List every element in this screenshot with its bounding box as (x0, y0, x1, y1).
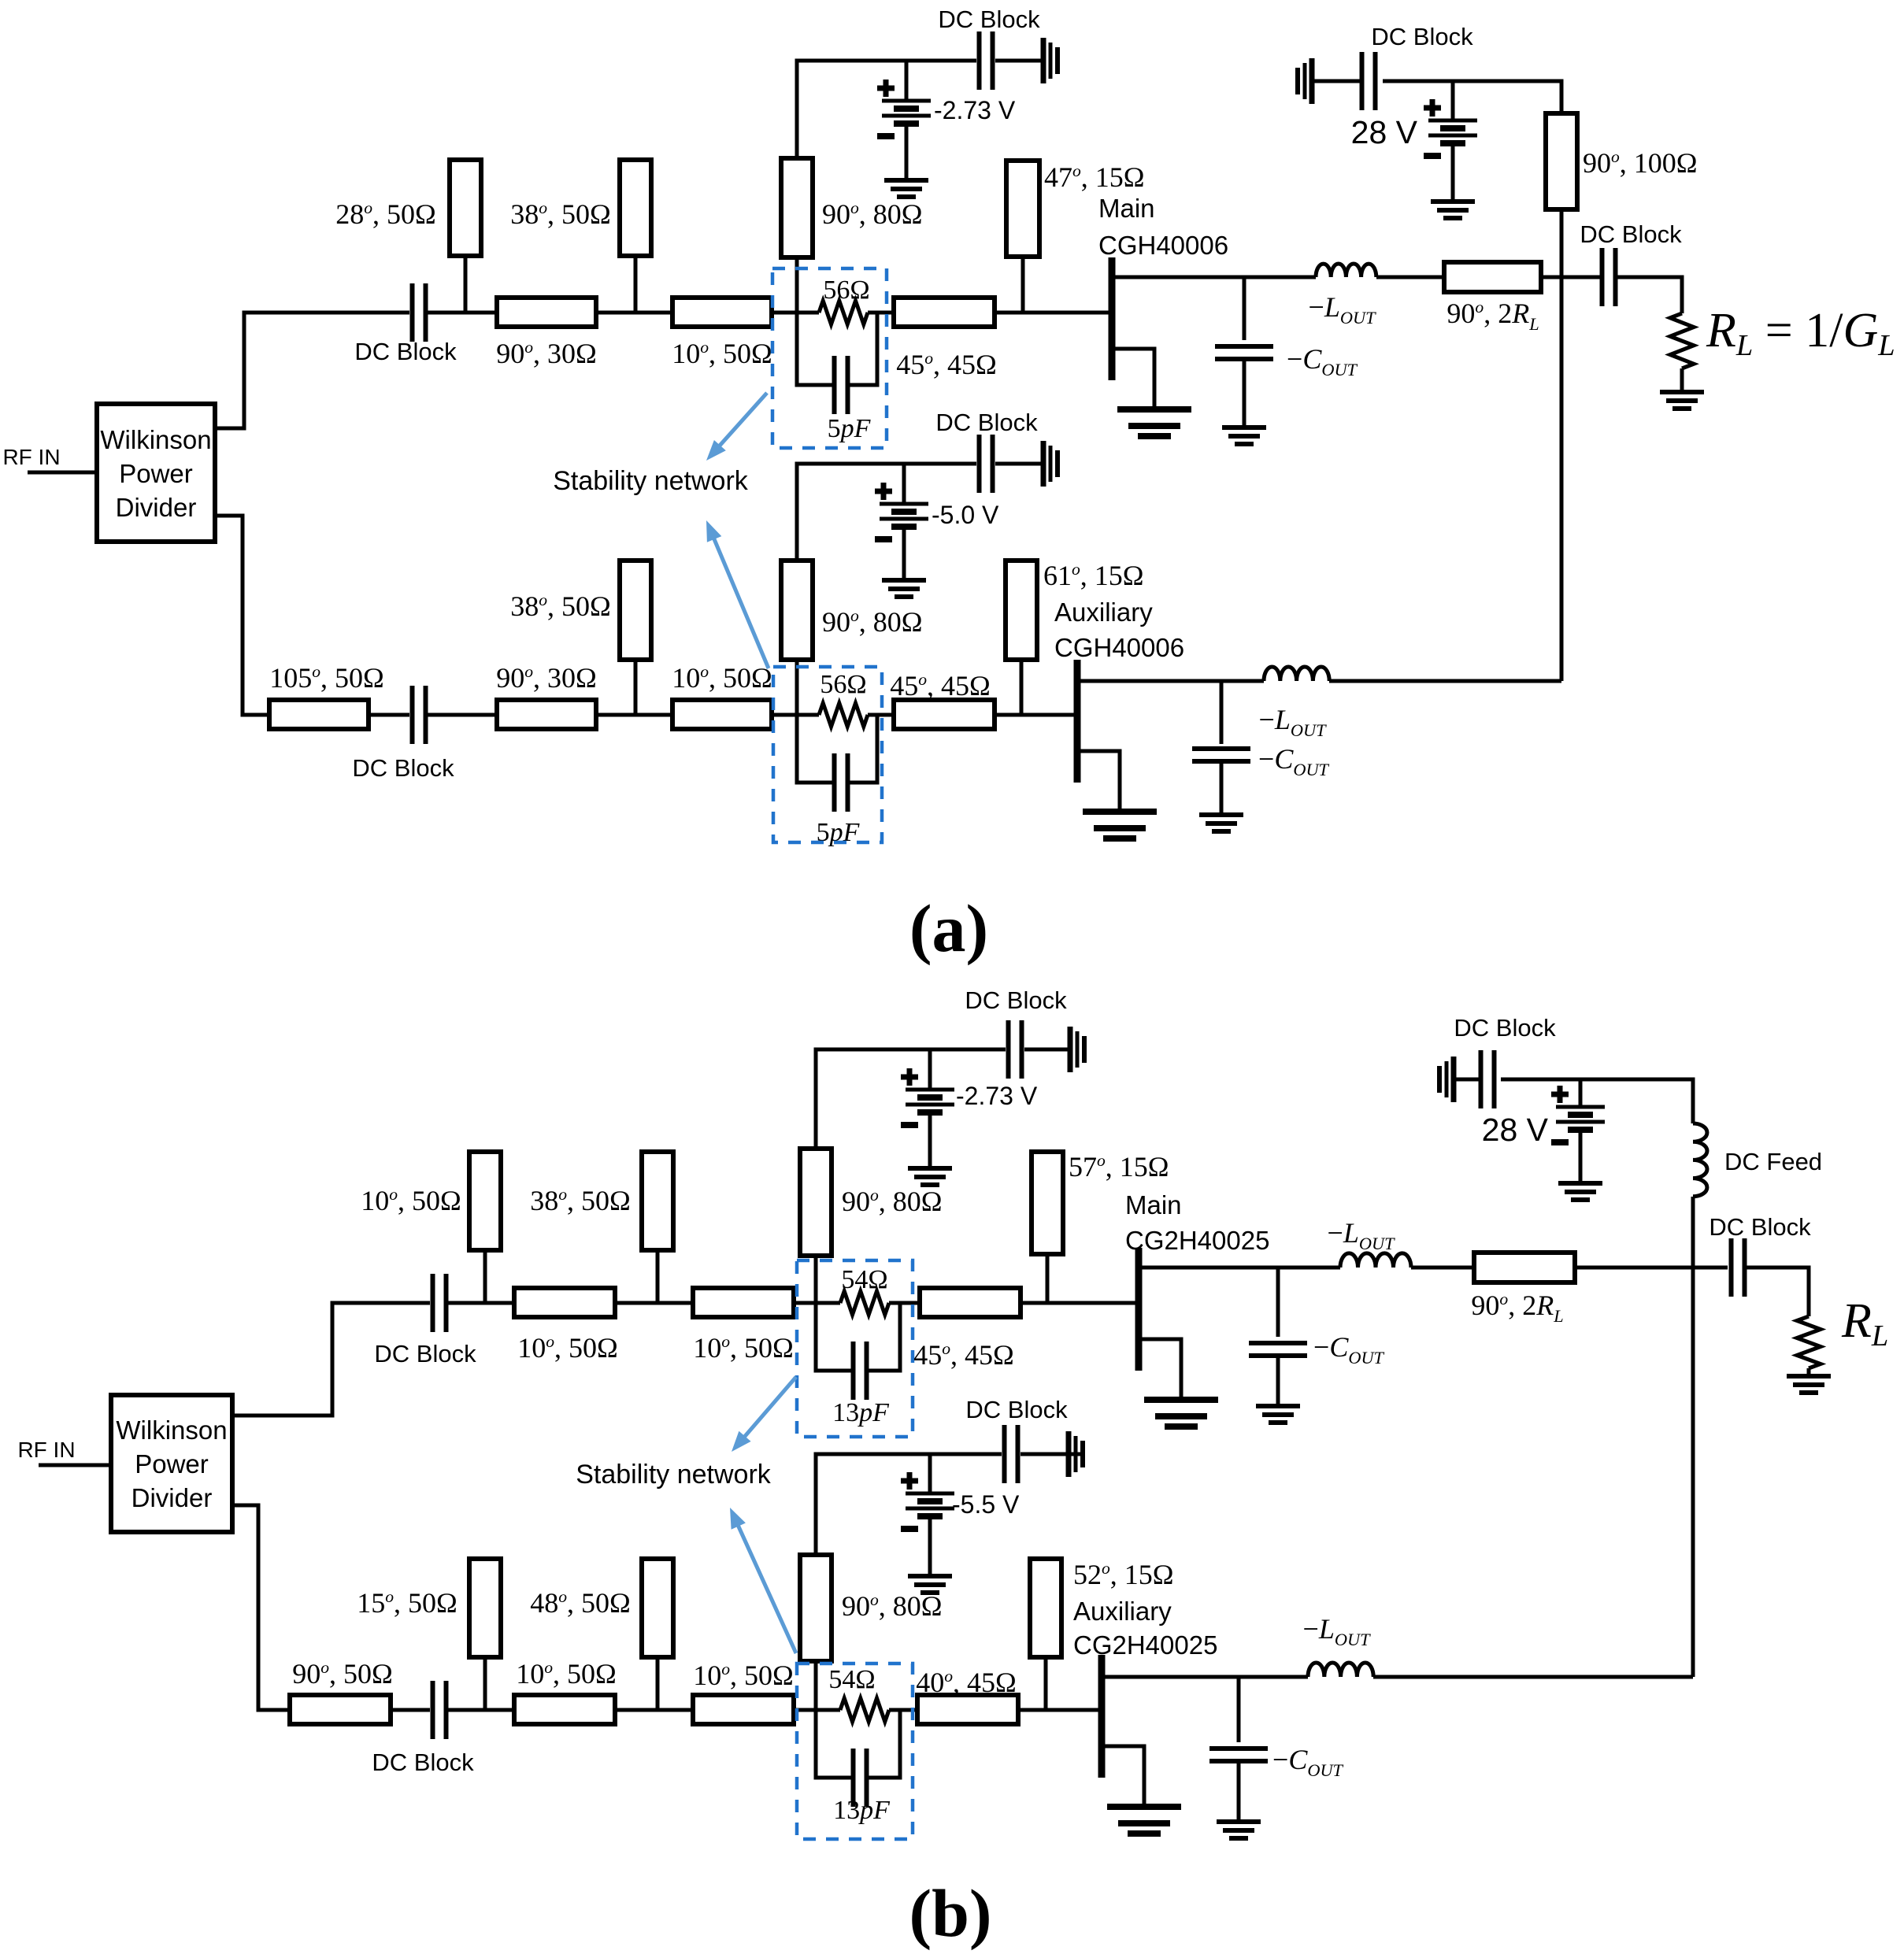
wire cap to rfgnd 28V (b) (1454, 1078, 1480, 1082)
ground aux FET source (a) (1083, 812, 1157, 838)
capacitor 13pF main (b) (854, 1342, 867, 1400)
capacitor DC Block aux bias (b) (1005, 1425, 1018, 1483)
wire bias feed main (b) (816, 1049, 1006, 1149)
TL 105deg 50ohm aux (a) (269, 700, 369, 729)
svg-text:61o, 15Ω: 61o, 15Ω (1043, 560, 1144, 591)
RF ground aux bias (b) (1069, 1431, 1083, 1477)
wire divider top output (a) (215, 313, 409, 428)
wire Cout junction main (b) (1276, 1268, 1280, 1337)
resistor 54ohm main (b) (840, 1291, 889, 1315)
open stub 47deg 15ohm (a) (1006, 161, 1039, 257)
wire stub61 lead (a) (1020, 660, 1024, 715)
svg-text:90o, 80Ω: 90o, 80Ω (822, 198, 923, 230)
open stub 10deg 50ohm (b) (469, 1152, 501, 1250)
transistor Auxiliary CGH40006 (a) (1074, 660, 1081, 783)
wire TL1 to TL2 main (b) (615, 1301, 693, 1305)
TL 10deg 50ohm first aux (b) (514, 1695, 615, 1724)
svg-text:56Ω: 56Ω (823, 276, 869, 305)
wire cap to load (b) (1745, 1268, 1809, 1316)
wire Lout to junction aux (b) (1373, 1675, 1693, 1679)
TL 90deg 2RL (b) (1474, 1253, 1575, 1282)
shunt stub 90deg 80ohm main (a) (781, 158, 813, 257)
svg-text:90o, 30Ω: 90o, 30Ω (496, 338, 597, 369)
svg-text:Wilkinson: Wilkinson (116, 1416, 227, 1445)
transistor Main CG2H40025 (b) (1135, 1248, 1143, 1371)
wire TL2RL to output node (b) (1575, 1266, 1728, 1270)
open stub 57deg 15ohm (b) (1032, 1152, 1063, 1254)
wire bias feed aux (a) (797, 464, 976, 561)
svg-text:RF IN: RF IN (2, 445, 60, 469)
svg-text:90o, 100Ω: 90o, 100Ω (1583, 147, 1698, 179)
transistor Auxiliary CG2H40025 (b) source lead (1102, 1746, 1144, 1807)
ground RL (b) (1787, 1376, 1831, 1393)
svg-text:-2.73 V: -2.73 V (956, 1082, 1038, 1110)
ground -Cout main (b) (1256, 1406, 1300, 1423)
svg-text:10o, 50Ω: 10o, 50Ω (517, 1332, 618, 1364)
wire cap to TL1 main (b) (446, 1301, 514, 1305)
wire TL1 to TL2 aux (b) (615, 1708, 693, 1712)
svg-text:56Ω: 56Ω (820, 670, 866, 699)
ground main FET source (b) (1144, 1400, 1218, 1427)
transistor Main CGH40006 (a) (1109, 257, 1116, 380)
wire Cout to ground aux (b) (1237, 1761, 1241, 1822)
wire stability cap right main (b) (867, 1303, 900, 1371)
svg-text:10o, 50Ω: 10o, 50Ω (693, 1660, 794, 1691)
svg-text:10o, 50Ω: 10o, 50Ω (672, 662, 772, 694)
wire Cout junction aux (b) (1237, 1677, 1241, 1742)
open stub 28deg 50ohm (a) (450, 160, 481, 256)
inductor -Lout aux (a) (1264, 667, 1329, 681)
svg-text:DC Block: DC Block (1709, 1213, 1811, 1241)
svg-text:38o, 50Ω: 38o, 50Ω (530, 1185, 631, 1216)
shunt stub 90deg 100ohm (a) (1546, 113, 1577, 209)
wire stability cap left main (b) (816, 1303, 853, 1371)
wire cap to TL10 aux (b) (446, 1708, 514, 1712)
svg-text:Auxiliary: Auxiliary (1054, 598, 1153, 627)
svg-text:DC Block: DC Block (965, 1396, 1068, 1423)
wire resistor to TL40 aux (b) (889, 1708, 917, 1712)
svg-text:105o, 50Ω: 105o, 50Ω (269, 662, 384, 694)
svg-text:DC Block: DC Block (938, 6, 1040, 33)
svg-text:Divider: Divider (132, 1483, 213, 1512)
transistor Main CG2H40025 (b) source lead (1139, 1339, 1181, 1400)
resistor 54ohm aux (b) (840, 1698, 889, 1722)
wire Lout to TL2RL (a) (1376, 276, 1444, 279)
ground -Cout aux (a) (1199, 815, 1243, 831)
resistor RL load (b) (1797, 1316, 1821, 1368)
TL 45deg 45ohm aux (a) (894, 700, 995, 729)
wire stub1 lead main (b) (483, 1250, 487, 1303)
wire TL45 to gate main (b) (1021, 1301, 1135, 1305)
wire battery to ground (b aux) (928, 1516, 932, 1576)
wire RL to ground (b) (1807, 1368, 1811, 1376)
wire resistor to TL45 main (a) (868, 311, 894, 315)
wire stub2 lead main (b) (656, 1250, 660, 1303)
svg-text:45o, 45Ω: 45o, 45Ω (896, 349, 997, 380)
svg-text:DC Block: DC Block (1371, 23, 1473, 50)
wire 28V battery to ground (a) (1451, 143, 1455, 202)
svg-text:DC Block: DC Block (1454, 1014, 1556, 1042)
ground RL (a) (1660, 392, 1704, 409)
svg-text:Stability network: Stability network (553, 466, 749, 496)
capacitor -Cout main (a) (1215, 346, 1273, 359)
svg-text:52o, 15Ω: 52o, 15Ω (1073, 1559, 1174, 1590)
capacitor DC Block aux input (b) (433, 1681, 446, 1739)
inductor DC Feed (b) (1693, 1123, 1707, 1197)
TL 10deg 50ohm first main (b) (514, 1288, 615, 1317)
wire stub15 lead aux (b) (483, 1657, 487, 1710)
ground battery main (a) (884, 180, 928, 197)
ground 28V battery (a) (1431, 202, 1475, 218)
open stub 38deg 50ohm main (a) (620, 160, 651, 256)
wire stability cap right main (a) (848, 313, 877, 385)
wire cap to RF ground aux bias (a) (995, 462, 1043, 466)
wire 28V battery junction (a) (1451, 81, 1455, 120)
svg-text:Divider: Divider (116, 493, 197, 522)
wire stub to node aux (b) (814, 1661, 818, 1710)
svg-text:45o, 45Ω: 45o, 45Ω (913, 1339, 1014, 1371)
wire TL105 to cap aux (a) (369, 713, 409, 717)
battery 28V (b) (1551, 1086, 1605, 1142)
shunt stub 90deg 80ohm aux (b) (800, 1555, 832, 1661)
wire resistor to TL45 aux (a) (868, 713, 894, 717)
arrow to aux stability box (a) (706, 520, 769, 668)
svg-text:90o, 2RL: 90o, 2RL (1471, 1290, 1563, 1326)
arrow to main stability box (b) (732, 1377, 796, 1452)
resistor 56ohm main (a) (819, 301, 868, 324)
wire cap to load (a) (1616, 277, 1682, 313)
transistor Auxiliary CG2H40025 (b) (1098, 1655, 1106, 1778)
wire divider bottom output (a) (215, 516, 269, 715)
wire TL2 to stability node main (a) (772, 311, 819, 315)
svg-text:DC Feed: DC Feed (1724, 1148, 1822, 1175)
wire cap to RF ground main bias (a) (995, 59, 1043, 63)
inductor -Lout aux (b) (1308, 1663, 1373, 1677)
ground -Cout aux (b) (1217, 1822, 1261, 1838)
TL 45deg 45ohm main (a) (894, 298, 995, 327)
wire stub57 lead (b) (1046, 1254, 1050, 1303)
capacitor -Cout aux (a) (1192, 749, 1250, 761)
svg-text:DC Block: DC Block (372, 1749, 474, 1776)
capacitor DC Block main bias (b) (1009, 1020, 1022, 1079)
wire main drain line (a) (1112, 276, 1316, 279)
RF ground main bias (b) (1070, 1027, 1084, 1072)
svg-text:DC Block: DC Block (935, 409, 1038, 436)
ground aux FET source (b) (1107, 1807, 1181, 1834)
wire battery junction (a main) (905, 61, 909, 101)
stability network dashed box aux (b) (797, 1663, 913, 1839)
capacitor 5pF aux (a) (835, 753, 848, 812)
battery -5.0V (a) (875, 483, 928, 539)
wire main drain line (b) (1139, 1266, 1340, 1270)
svg-text:28 V: 28 V (1351, 114, 1418, 150)
svg-text:40o, 45Ω: 40o, 45Ω (916, 1667, 1017, 1698)
wire bias feed main (a) (797, 61, 976, 158)
wire TL45 to gate aux (a) (995, 713, 1074, 717)
wire aux to main output junction (b) (1691, 1268, 1695, 1677)
capacitor DC Block output (a) (1602, 248, 1616, 306)
TL 10deg 50ohm aux (a) (672, 700, 772, 729)
svg-text:Wilkinson: Wilkinson (100, 425, 211, 454)
svg-text:48o, 50Ω: 48o, 50Ω (530, 1587, 631, 1619)
svg-text:RF IN: RF IN (17, 1438, 75, 1462)
ground main FET source (a) (1117, 409, 1191, 436)
svg-text:45o, 45Ω: 45o, 45Ω (890, 670, 991, 701)
wire Lout to TL2RL (b) (1411, 1266, 1474, 1270)
wire Cout junction main (a) (1243, 277, 1246, 340)
wire stability cap left aux (b) (816, 1710, 853, 1778)
wire RL to ground (a) (1680, 368, 1684, 392)
svg-text:47o, 15Ω: 47o, 15Ω (1044, 161, 1145, 193)
wire TL10 to node aux (a) (772, 713, 819, 717)
svg-text:5pF: 5pF (828, 414, 872, 443)
wire resistor to TL45 main (b) (889, 1301, 920, 1305)
wire stub1 lead main (a) (464, 256, 468, 313)
TL 90deg 50ohm aux (b) (290, 1695, 391, 1724)
wire stub to node main (b) (814, 1256, 818, 1303)
capacitor 5pF main (a) (835, 356, 848, 414)
wire stub100 to bias (a) (1383, 81, 1561, 113)
wire battery junction (b aux) (928, 1454, 932, 1493)
wire TL90 to cap aux (b) (391, 1708, 430, 1712)
wire Cout to ground main (b) (1276, 1356, 1280, 1406)
capacitor -Cout aux (b) (1209, 1749, 1268, 1761)
svg-text:13pF: 13pF (833, 1796, 891, 1825)
wire stability cap left main (a) (797, 313, 834, 385)
wire stub100 to node (a) (1560, 209, 1564, 277)
wire stability cap right aux (a) (848, 715, 877, 783)
wire stub52 lead (b) (1044, 1657, 1048, 1710)
svg-text:10o, 50Ω: 10o, 50Ω (693, 1332, 794, 1364)
svg-text:DC Block: DC Block (1580, 220, 1682, 248)
capacitor DC Block main bias (a) (980, 31, 993, 90)
svg-text:90o, 30Ω: 90o, 30Ω (496, 662, 597, 694)
wire 28V battery to ground (b) (1579, 1130, 1583, 1183)
svg-text:-2.73 V: -2.73 V (934, 96, 1016, 124)
wire aux drain line (b) (1102, 1675, 1308, 1679)
capacitor DC Block aux bias (a) (980, 435, 993, 493)
svg-text:38o, 50Ω: 38o, 50Ω (510, 590, 611, 622)
open stub 52deg 15ohm (b) (1030, 1559, 1061, 1657)
wire stability cap left aux (a) (797, 715, 834, 783)
TL 10deg 50ohm second main (b) (693, 1288, 794, 1317)
capacitor DC Block aux input (a) (413, 686, 426, 744)
arrow to aux stability box (b) (730, 1508, 796, 1653)
wire aux drain line (a) (1077, 679, 1264, 683)
svg-text:RL = 1/GL: RL = 1/GL (1706, 304, 1895, 362)
svg-text:13pF: 13pF (832, 1398, 890, 1427)
wire bias feed 28V (b) (1501, 1079, 1693, 1123)
wire TL40 to gate aux (b) (1018, 1708, 1098, 1712)
ground 28V battery (b) (1558, 1183, 1602, 1200)
wire battery to ground (b main) (928, 1112, 932, 1168)
svg-text:DC Block: DC Block (352, 754, 454, 782)
resistor RL load (a) (1670, 313, 1694, 368)
svg-text:CGH40006: CGH40006 (1054, 633, 1184, 662)
svg-text:10o, 50Ω: 10o, 50Ω (361, 1185, 461, 1216)
RF ground 28V (b) (1439, 1057, 1454, 1102)
wire cap to TL90 aux (a) (426, 713, 497, 717)
svg-text:54Ω: 54Ω (828, 1665, 875, 1694)
svg-text:10o, 50Ω: 10o, 50Ω (672, 338, 772, 369)
capacitor DC Block main input (b) (433, 1274, 446, 1332)
capacitor DC Block main input (a) (413, 283, 426, 342)
svg-text:CG2H40025: CG2H40025 (1125, 1226, 1269, 1255)
svg-text:Main: Main (1098, 194, 1155, 223)
wire cap to TL1 main (a) (426, 311, 497, 315)
wire battery junction (a aux) (902, 464, 906, 504)
TL 40deg 45ohm aux (b) (917, 1695, 1018, 1724)
wire TL2 to node main (b) (794, 1301, 840, 1305)
svg-text:(a): (a) (909, 890, 988, 966)
capacitor 13pF aux (b) (854, 1749, 867, 1807)
battery 28V (a) (1424, 99, 1477, 156)
wire stability cap right aux (b) (867, 1710, 900, 1778)
ground battery main (b) (908, 1168, 952, 1185)
svg-text:90o, 2RL: 90o, 2RL (1447, 298, 1539, 334)
svg-text:DC Block: DC Block (965, 986, 1067, 1014)
shunt stub 90deg 80ohm main (b) (800, 1149, 832, 1256)
wire stub47 lead (a) (1021, 257, 1025, 313)
svg-text:DC Block: DC Block (354, 338, 457, 365)
svg-text:(b): (b) (909, 1875, 991, 1951)
TL 45deg 45ohm main (b) (920, 1288, 1021, 1317)
svg-text:Main: Main (1125, 1190, 1182, 1219)
Wilkinson power divider box (b) (111, 1395, 232, 1532)
svg-text:54Ω: 54Ω (841, 1265, 887, 1294)
transistor Auxiliary CGH40006 (a) source lead (1077, 751, 1120, 812)
svg-text:15o, 50Ω: 15o, 50Ω (357, 1587, 457, 1619)
stability network dashed box main (a) (772, 268, 887, 448)
TL 90deg 30ohm main (a) (497, 298, 596, 327)
wire cap to RF ground main bias (b) (1024, 1048, 1070, 1052)
wire TL2 to node aux (b) (794, 1708, 840, 1712)
open stub 61deg 15ohm (a) (1006, 561, 1037, 660)
svg-text:38o, 50Ω: 38o, 50Ω (510, 198, 611, 230)
TL 10deg 50ohm second aux (b) (693, 1695, 794, 1724)
Wilkinson power divider box (a) (97, 404, 215, 542)
wire 28V battery junction (b) (1579, 1079, 1583, 1107)
arrow to main stability box (a) (706, 393, 767, 461)
svg-text:Auxiliary: Auxiliary (1073, 1597, 1172, 1626)
svg-text:DC Block: DC Block (374, 1340, 476, 1367)
wire Cout junction aux (a) (1220, 681, 1224, 744)
wire cap to rfgnd 28V (a) (1312, 80, 1361, 83)
svg-text:28 V: 28 V (1482, 1112, 1549, 1148)
TL 10deg 50ohm main (a) (672, 298, 772, 327)
wire Cout to ground aux (a) (1220, 761, 1224, 815)
wire battery to ground (a main) (905, 124, 909, 180)
svg-text:-5.5 V: -5.5 V (952, 1490, 1020, 1519)
resistor 56ohm aux (a) (819, 703, 868, 727)
capacitor DC Block output (b) (1732, 1238, 1745, 1297)
svg-text:CG2H40025: CG2H40025 (1073, 1630, 1217, 1660)
capacitor DC Block 28V (b) (1481, 1050, 1495, 1108)
svg-text:Stability network: Stability network (576, 1460, 772, 1490)
ground battery aux (a) (882, 580, 926, 597)
TL 90deg 30ohm aux (a) (497, 700, 596, 729)
ground -Cout main (a) (1222, 427, 1266, 444)
wire aux to main output junction (a) (1560, 277, 1564, 681)
svg-text:90o, 80Ω: 90o, 80Ω (842, 1186, 943, 1217)
wire cap to RF ground aux bias (b) (1021, 1453, 1083, 1456)
RF ground main bias (a) (1043, 38, 1058, 83)
wire divider bottom output (b) (232, 1505, 290, 1710)
wire stub to node aux (a) (795, 660, 799, 715)
svg-text:Power: Power (119, 459, 193, 488)
inductor -Lout main (b) (1340, 1253, 1411, 1268)
svg-text:57o, 15Ω: 57o, 15Ω (1069, 1151, 1169, 1182)
RF ground aux bias (a) (1043, 441, 1058, 487)
wire bias feed aux (b) (816, 1454, 1002, 1555)
wire Cout to ground main (a) (1243, 359, 1246, 427)
RF ground 28V (a) (1298, 58, 1312, 104)
wire RF input lead (b) (39, 1464, 111, 1467)
battery -5.5V (b) (901, 1472, 954, 1529)
ground battery aux (b) (908, 1576, 952, 1593)
wire stub to node main (a) (795, 257, 799, 313)
wire divider top output (b) (232, 1303, 430, 1416)
wire battery junction (b main) (928, 1049, 932, 1090)
open stub 38deg 50ohm aux (a) (620, 561, 651, 660)
shunt stub 90deg 80ohm aux (a) (781, 561, 813, 660)
svg-text:10o, 50Ω: 10o, 50Ω (516, 1658, 617, 1689)
capacitor -Cout main (b) (1249, 1343, 1307, 1356)
wire stub2 lead main (a) (634, 256, 638, 313)
capacitor DC Block 28V (a) (1362, 52, 1376, 110)
open stub 15deg 50ohm aux (b) (469, 1559, 501, 1657)
wire stub48 lead aux (b) (656, 1657, 660, 1710)
open stub 48deg 50ohm aux (b) (642, 1559, 673, 1657)
battery -2.73V (a) (877, 80, 931, 136)
wire TL2RL to output node (a) (1541, 276, 1602, 279)
svg-text:Power: Power (135, 1449, 209, 1478)
wire TL1 to TL2 main (a) (596, 311, 672, 315)
svg-text:90o, 50Ω: 90o, 50Ω (292, 1658, 393, 1689)
wire battery to ground (a aux) (902, 527, 906, 580)
battery -2.73V (b) (901, 1068, 954, 1125)
stability network dashed box main (b) (797, 1260, 913, 1437)
open stub 38deg 50ohm main (b) (642, 1152, 673, 1250)
transistor Main CGH40006 (a) source lead (1112, 349, 1154, 409)
svg-text:28o, 50Ω: 28o, 50Ω (335, 198, 436, 230)
inductor -Lout main (a) (1316, 264, 1376, 277)
wire DC feed to output line (b) (1691, 1197, 1695, 1268)
wire Lout to junction aux (a) (1329, 679, 1561, 683)
TL 90deg 2RL (a) (1444, 262, 1541, 292)
wire stub38 lead aux (a) (634, 660, 638, 715)
stability network dashed box aux (a) (773, 667, 882, 842)
svg-text:-5.0 V: -5.0 V (932, 501, 999, 529)
svg-text:CGH40006: CGH40006 (1098, 231, 1228, 260)
wire TL90 to TL10 aux (a) (596, 713, 672, 717)
wire RF input lead (a) (28, 471, 97, 475)
svg-text:90o, 80Ω: 90o, 80Ω (822, 606, 923, 638)
wire TL45 to gate main (a) (995, 311, 1109, 315)
